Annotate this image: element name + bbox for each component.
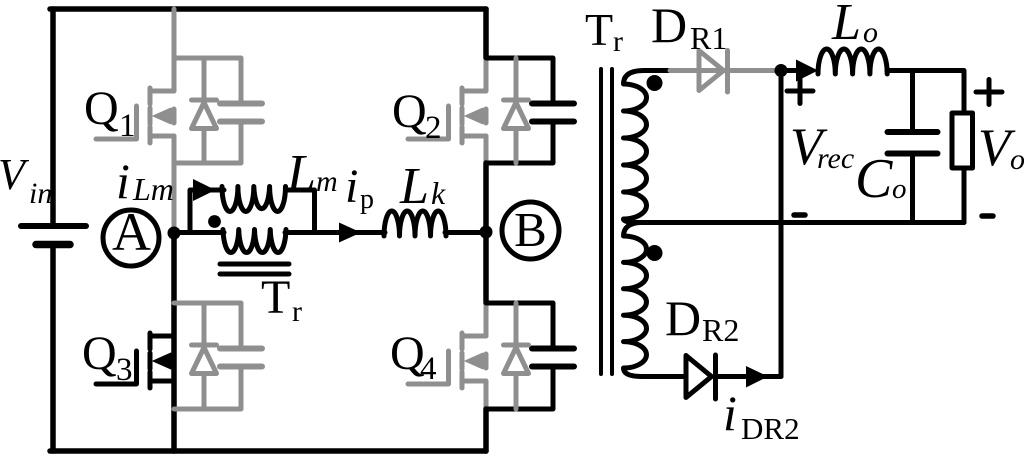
svg-text:i: i [723, 385, 737, 441]
label Q3 [82, 327, 133, 388]
svg-text:L: L [831, 0, 861, 51]
inductor Lo coil [818, 49, 887, 74]
label Lm [286, 145, 338, 202]
wire node A to primary branch [174, 230, 224, 235]
svg-text:o: o [1010, 143, 1024, 176]
wire top rail [50, 6, 486, 12]
svg-text:L: L [286, 145, 316, 202]
svg-text:4: 4 [420, 351, 437, 387]
svg-text:m: m [316, 165, 338, 198]
svg-text:T: T [261, 271, 290, 324]
body diode of Q2 [504, 58, 529, 163]
wire bottom rail [50, 448, 486, 454]
label iDR2 [723, 385, 800, 446]
secondary bottom polarity dot [647, 245, 663, 261]
node rectifier output [775, 64, 788, 77]
wire Lo to load corner [887, 71, 964, 114]
capacitor Co plates [888, 132, 938, 154]
transistor Q2 inner leg (gray) [484, 58, 489, 163]
diode DR1 [699, 51, 728, 93]
transformer secondary winding top [624, 71, 671, 223]
transformer Tr core lines [601, 69, 612, 374]
node B [480, 226, 493, 239]
svg-text:R2: R2 [702, 312, 739, 348]
wire left rail upper [50, 9, 56, 223]
svg-text:r: r [613, 25, 623, 58]
current arrow rectifier output [781, 60, 818, 82]
svg-text:1: 1 [119, 108, 136, 144]
label Q1 [84, 82, 136, 144]
label Co [855, 148, 907, 210]
svg-text:Q: Q [392, 85, 427, 138]
label Lk [399, 158, 446, 215]
svg-text:D: D [665, 290, 701, 346]
battery Vin short plate [36, 241, 70, 249]
current arrow ip [339, 223, 361, 243]
transistor Q1 drain leg wire (gray) [172, 9, 177, 228]
label ip [345, 160, 374, 215]
wire Lm branch left leg [190, 190, 224, 233]
capacitor of Q2 [532, 104, 574, 122]
transistor Q4 inner leg (gray) [484, 303, 489, 409]
node A circle label [103, 202, 159, 266]
svg-text:k: k [431, 175, 446, 211]
svg-text:A: A [112, 202, 151, 262]
label Tr secondary [585, 4, 623, 58]
transformer primary winding coil [223, 230, 286, 253]
capacitor Co stem upper [910, 71, 915, 130]
battery Vin long plate [21, 223, 86, 229]
wire Lk to node B [445, 230, 482, 235]
current arrow iDR2 [746, 366, 768, 388]
label Vrec [790, 118, 854, 176]
svg-text:Q: Q [84, 82, 119, 135]
svg-text:T: T [585, 4, 613, 55]
node A [168, 227, 181, 240]
svg-text:D: D [651, 0, 687, 53]
svg-text:o: o [892, 173, 907, 205]
transformer secondary winding bottom [624, 223, 647, 377]
transistor Q1 cell box [174, 58, 241, 163]
secondary top polarity dot [647, 75, 663, 91]
mosfet symbol Q2 [408, 88, 486, 143]
label + Vrec [787, 79, 813, 104]
label Lo [831, 0, 878, 51]
mosfet symbol Q1 [96, 88, 174, 143]
transistor Q3 leg wire [171, 233, 177, 451]
wire secondary top to DR1 (gray) [670, 68, 776, 73]
transistor Q4 leg wire upper [483, 232, 489, 303]
svg-text:o: o [863, 16, 878, 49]
label Q2 [392, 85, 442, 146]
current arrow iLm [193, 179, 216, 201]
svg-text:L: L [399, 158, 429, 215]
svg-text:p: p [360, 184, 374, 215]
svg-text:3: 3 [116, 352, 133, 388]
svg-text:B: B [514, 202, 547, 257]
mosfet symbol Q3 [96, 333, 174, 388]
transistor Q2 drain leg wire [483, 9, 489, 58]
label - Vrec [794, 212, 805, 218]
mosfet symbol Q4 [408, 333, 486, 388]
svg-text:i: i [345, 160, 358, 213]
svg-text:2: 2 [425, 110, 442, 146]
wire primary to Lk [285, 230, 385, 235]
transformer primary polarity dot [208, 215, 221, 228]
svg-text:Q: Q [82, 327, 117, 380]
inductor Lk coil [384, 211, 446, 236]
svg-text:C: C [855, 148, 893, 210]
svg-text:rec: rec [817, 142, 854, 175]
wire resistor to bottom [962, 168, 967, 223]
svg-text:Lm: Lm [132, 171, 174, 207]
label DR1 [651, 0, 727, 56]
svg-text:i: i [116, 153, 130, 209]
label DR2 [665, 290, 739, 348]
body diode of Q3 [192, 303, 217, 409]
transistor Q4 cell box [486, 303, 553, 409]
svg-text:DR2: DR2 [741, 411, 800, 446]
wire Vrec vertical [779, 71, 784, 377]
resistor load Vo [952, 113, 973, 168]
capacitor Co stem lower [910, 157, 915, 223]
wire Lm branch right leg [286, 190, 315, 233]
svg-text:V: V [0, 150, 30, 199]
svg-text:in: in [29, 177, 52, 210]
label + Vo [976, 80, 1002, 105]
svg-text:r: r [292, 295, 302, 328]
wire left rail lower [50, 248, 56, 451]
wire Q2 source to node B [483, 163, 489, 232]
wire center tap rail [640, 220, 964, 225]
body diode of Q1 [192, 58, 217, 163]
label iLm [116, 153, 174, 209]
wire Q4 source to bottom rail [483, 409, 489, 451]
capacitor of Q1 [220, 104, 262, 122]
node B circle label [502, 202, 559, 259]
diode DR2 [642, 355, 781, 399]
transistor Q2 cell box [486, 58, 553, 163]
label Vin [0, 150, 52, 210]
label Tr primary [261, 271, 302, 328]
body diode of Q4 [504, 303, 529, 409]
capacitor of Q3 [220, 349, 262, 367]
label Q4 [390, 327, 437, 387]
transistor Q3 cell box [174, 303, 241, 409]
transformer primary core bars [220, 264, 289, 274]
inductor Lm coil [222, 187, 286, 212]
label - Vo [982, 213, 993, 219]
svg-text:R1: R1 [690, 20, 727, 56]
label Vo [978, 119, 1024, 177]
capacitor of Q4 [532, 349, 574, 367]
